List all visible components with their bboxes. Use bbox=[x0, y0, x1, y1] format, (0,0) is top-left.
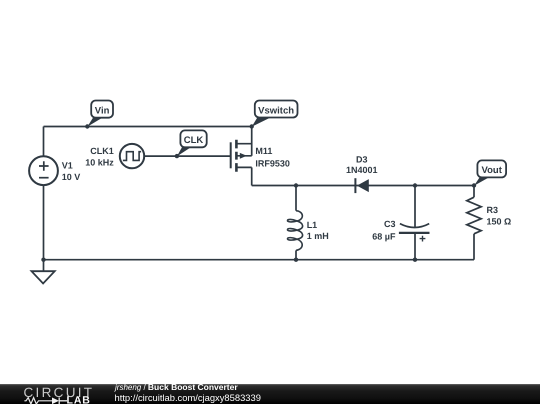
node L1 bottom junction dot bbox=[294, 258, 298, 262]
transistor M11 P-MOSFET bbox=[231, 140, 252, 172]
node C3 bottom junction dot bbox=[413, 258, 417, 262]
footer url text bbox=[115, 392, 261, 403]
voltage source V1 bbox=[29, 156, 58, 185]
svg-text:D3: D3 bbox=[356, 155, 368, 165]
wire C3 top lead bbox=[414, 186, 416, 228]
svg-text:V1: V1 bbox=[62, 161, 73, 171]
footer title text bbox=[115, 382, 238, 392]
resistor R3 bbox=[467, 197, 481, 234]
wire drain to diode horizontal bbox=[252, 185, 356, 187]
svg-text:CLK1: CLK1 bbox=[90, 146, 114, 156]
svg-text:1 mH: 1 mH bbox=[307, 231, 329, 241]
svg-text:LAB: LAB bbox=[67, 395, 91, 405]
node Vout junction dot bbox=[472, 183, 476, 187]
label C3 value bbox=[372, 219, 396, 242]
wire MOSFET drain vertical bbox=[251, 167, 253, 185]
wire R3 top lead bbox=[473, 186, 475, 198]
svg-text:M11: M11 bbox=[255, 146, 272, 156]
ground bbox=[32, 271, 55, 283]
node CLK junction dot bbox=[175, 154, 179, 158]
svg-text:CLK: CLK bbox=[184, 135, 204, 146]
node L1 top junction dot bbox=[294, 183, 298, 187]
wire ground stub bbox=[43, 260, 45, 272]
node Vin flag bbox=[87, 101, 113, 127]
label R3 value bbox=[487, 205, 512, 227]
wire diode to Vout horizontal bbox=[355, 185, 474, 187]
wire top Vin net horizontal bbox=[44, 126, 252, 128]
wire gate CLK net bbox=[144, 155, 231, 157]
label M11 value bbox=[255, 146, 290, 168]
svg-text:1N4001: 1N4001 bbox=[346, 165, 378, 175]
inductor L1 bbox=[287, 211, 302, 251]
label V1 value bbox=[62, 161, 81, 182]
wire C3 bottom lead bbox=[414, 233, 416, 260]
node Vout flag bbox=[474, 160, 506, 185]
node C3 top junction dot bbox=[413, 183, 417, 187]
svg-text:10 V: 10 V bbox=[62, 172, 81, 182]
svg-text:R3: R3 bbox=[487, 205, 499, 215]
wire R3 bottom lead bbox=[473, 234, 475, 260]
svg-text:Vin: Vin bbox=[95, 105, 110, 116]
CircuitLab logo bbox=[18, 381, 118, 405]
wire bottom ground net horizontal bbox=[44, 259, 475, 261]
svg-text:Vout: Vout bbox=[481, 165, 502, 176]
node Vin junction dot bbox=[85, 124, 89, 128]
svg-text:IRF9530: IRF9530 bbox=[255, 158, 290, 168]
svg-text:L1: L1 bbox=[307, 220, 318, 230]
label D3 value bbox=[346, 155, 378, 175]
label CLK1 value bbox=[85, 146, 114, 167]
footer bar bbox=[0, 384, 540, 404]
capacitor C3 bbox=[399, 224, 430, 242]
svg-text:150 Ω: 150 Ω bbox=[487, 217, 512, 227]
svg-text:10 kHz: 10 kHz bbox=[85, 158, 114, 168]
node ground junction dot bbox=[41, 258, 45, 262]
svg-text:C3: C3 bbox=[384, 219, 396, 229]
wire V1 top lead bbox=[43, 127, 45, 157]
label L1 value bbox=[307, 220, 329, 241]
wire MOSFET source vertical bbox=[251, 127, 253, 156]
wire L1 top lead bbox=[295, 186, 297, 211]
node Vswitch flag bbox=[252, 101, 298, 127]
node Vswitch junction dot bbox=[250, 124, 254, 128]
node CLK flag bbox=[177, 130, 207, 156]
svg-text:Vswitch: Vswitch bbox=[258, 105, 294, 116]
wire V1 bottom lead bbox=[43, 185, 45, 260]
svg-text:68 µF: 68 µF bbox=[372, 232, 396, 242]
diode D3 bbox=[355, 178, 368, 193]
wire L1 bottom lead bbox=[295, 250, 297, 259]
square wave source CLK1 bbox=[120, 144, 144, 168]
